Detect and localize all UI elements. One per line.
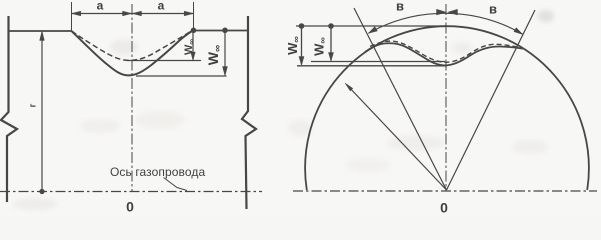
arrow b center left xyxy=(437,9,447,15)
arrow Woo down xyxy=(223,67,228,76)
arrow r top xyxy=(40,31,45,41)
leader line to axis label xyxy=(164,178,188,191)
leader radius line with arrow xyxy=(347,85,447,191)
svg-text:0: 0 xyxy=(440,200,448,216)
svg-text:Ось газопровода: Ось газопровода xyxy=(110,165,206,179)
arrow Woo2 down xyxy=(328,53,333,62)
arrow Wad down xyxy=(191,52,196,60)
node dot Woo dimension top xyxy=(222,28,228,34)
svg-text:в: в xyxy=(489,2,497,17)
bottom level line (solid curve bottom) xyxy=(136,75,227,77)
svg-text:W∞: W∞ xyxy=(312,37,328,56)
left trench wall with break xyxy=(1,16,17,202)
svg-text:г: г xyxy=(28,103,38,107)
arrow a center left xyxy=(123,11,132,16)
vertical centerline right (dash-dot) xyxy=(445,4,447,191)
ground surface right segment xyxy=(194,30,249,32)
right trench wall with break xyxy=(242,16,256,209)
node dot Woo2 top xyxy=(328,23,334,29)
arrow b center right xyxy=(448,9,458,15)
dimension extension line left (x=71.5) xyxy=(71,2,73,31)
node dot r bottom xyxy=(39,189,44,194)
radial line left xyxy=(354,8,447,190)
dimension line a+a xyxy=(72,13,194,15)
svg-text:W∞: W∞ xyxy=(285,36,301,55)
dimension line Woo2 (x=332.5) xyxy=(330,26,332,61)
arrow a left outward xyxy=(72,11,81,16)
svg-text:W∞: W∞ xyxy=(205,45,224,65)
svg-text:0: 0 xyxy=(126,199,134,215)
radial line right xyxy=(447,10,536,190)
top level line right diagram xyxy=(296,25,446,27)
arrow b right outward xyxy=(514,28,523,35)
arrow a right outward xyxy=(184,11,193,16)
arrow leader tip xyxy=(345,83,353,91)
wavy pipe solid curve xyxy=(365,43,523,65)
node dot curve right end xyxy=(191,28,197,34)
pipeline axis (dash-dot horizontal) xyxy=(0,191,262,193)
dimension arc b+b xyxy=(368,13,523,34)
axis right (dash-dot horizontal) xyxy=(293,190,597,192)
vertical centerline of trench (dash-dot) xyxy=(131,4,133,192)
svg-text:W∞: W∞ xyxy=(183,39,196,55)
dimension extension line right (x=193.5) xyxy=(193,2,195,28)
ground surface left segment xyxy=(9,30,72,32)
dimension line Woo1 (x=302) xyxy=(301,26,303,65)
arrow b left outward xyxy=(368,27,377,34)
svg-text:в: в xyxy=(396,0,404,14)
node dot Woo1 top xyxy=(299,23,305,29)
arrow a center right xyxy=(132,11,141,16)
svg-text:а: а xyxy=(158,0,165,13)
svg-text:а: а xyxy=(97,0,104,13)
arrow Woo1 down xyxy=(299,57,304,66)
trough level line (dashed curve bottom) xyxy=(127,60,201,62)
wavy pipe dashed curve xyxy=(370,41,520,62)
big circle (mound) arc xyxy=(305,26,589,190)
solid sag curve xyxy=(72,30,194,75)
dimension line Woo (x=225) xyxy=(224,31,226,75)
trough level line lower xyxy=(297,65,447,67)
dimension line Wad small (x=193) xyxy=(192,33,194,60)
trough level line upper xyxy=(311,61,445,63)
dashed sag curve xyxy=(72,31,191,60)
scan smudges xyxy=(13,10,554,210)
depth dimension line r (x=42) xyxy=(41,32,43,192)
